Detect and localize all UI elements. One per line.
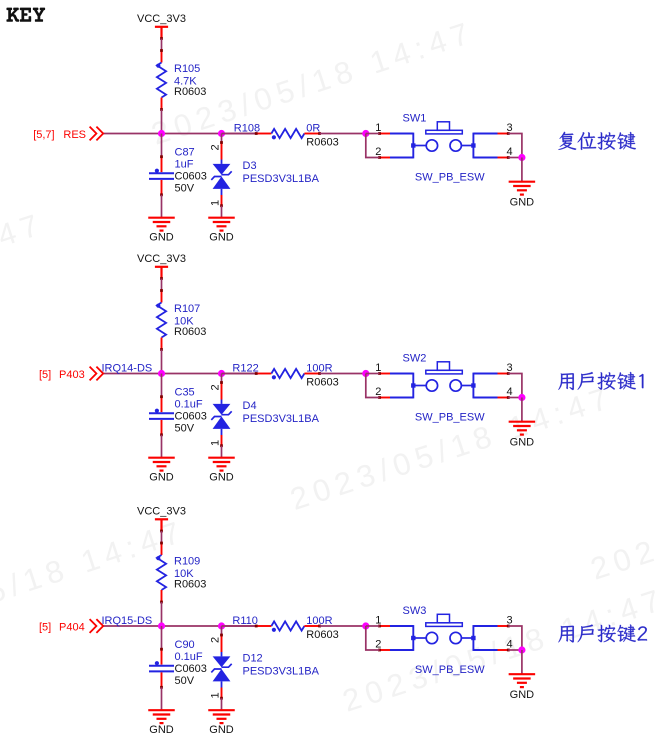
- wire: [221, 446, 223, 458]
- node junction: [218, 622, 225, 629]
- power VCC_3V3 (row 1): [137, 13, 186, 40]
- svg-text:GND: GND: [209, 472, 234, 484]
- svg-text:0.1uF: 0.1uF: [175, 399, 203, 411]
- wire: [161, 435, 163, 458]
- resistor R107 10K: [156, 289, 166, 351]
- svg-text:1: 1: [210, 440, 222, 446]
- wire: [508, 626, 522, 650]
- svg-text:SW2: SW2: [403, 353, 427, 365]
- svg-text:2: 2: [210, 637, 222, 643]
- svg-text:SW_PB_ESW: SW_PB_ESW: [415, 411, 485, 423]
- svg-text:VCC_3V3: VCC_3V3: [137, 13, 186, 25]
- svg-text:SW3: SW3: [403, 605, 427, 617]
- svg-text:C87: C87: [175, 147, 195, 159]
- wire net IRQ14-DS: [103, 373, 256, 375]
- wire: [221, 134, 223, 143]
- wire: [161, 626, 163, 649]
- port RES: [33, 127, 103, 141]
- wire: [508, 157, 522, 159]
- svg-text:C90: C90: [175, 639, 195, 651]
- svg-text:R110: R110: [232, 615, 257, 627]
- svg-text:GND: GND: [510, 196, 535, 208]
- resistor R122 100R: [255, 369, 321, 380]
- node junction: [218, 370, 225, 377]
- wire: [508, 134, 522, 158]
- wire: [161, 110, 163, 134]
- svg-text:[5]: [5]: [39, 621, 51, 633]
- label 用户按键2: [558, 625, 647, 643]
- svg-text:RES: RES: [63, 129, 86, 141]
- wire: [222, 373, 257, 375]
- svg-text:4: 4: [506, 146, 512, 158]
- svg-text:P404: P404: [59, 621, 85, 633]
- svg-text:VCC_3V3: VCC_3V3: [137, 253, 186, 265]
- wire: [521, 158, 523, 182]
- resistor R110 100R: [255, 621, 321, 632]
- wire: [161, 350, 163, 374]
- svg-text:100R: 100R: [306, 615, 332, 627]
- node junction: [158, 622, 165, 629]
- svg-text:R0603: R0603: [306, 136, 338, 148]
- wire: [320, 133, 366, 135]
- ground GND: [148, 218, 175, 231]
- svg-text:SW_PB_ESW: SW_PB_ESW: [415, 171, 485, 183]
- ground GND: [509, 422, 536, 435]
- wire: [508, 649, 522, 651]
- wire: [366, 373, 380, 375]
- svg-text:R0603: R0603: [306, 629, 338, 641]
- svg-text:GND: GND: [149, 724, 174, 736]
- label 复位按键: [558, 132, 636, 150]
- wire: [320, 625, 366, 627]
- svg-text:0R: 0R: [306, 122, 320, 134]
- svg-text:C0603: C0603: [175, 411, 207, 423]
- svg-text:GND: GND: [510, 436, 535, 448]
- svg-text:GND: GND: [209, 724, 234, 736]
- wire: [221, 206, 223, 218]
- wire: [161, 195, 163, 218]
- svg-text:R107: R107: [174, 303, 200, 315]
- wire: [521, 398, 523, 422]
- svg-text:1: 1: [210, 200, 222, 206]
- svg-text:100R: 100R: [306, 362, 332, 374]
- svg-text:3: 3: [506, 615, 512, 627]
- svg-text:50V: 50V: [175, 675, 195, 687]
- svg-text:4: 4: [506, 639, 512, 651]
- svg-text:R109: R109: [174, 556, 200, 568]
- node junction: [362, 370, 369, 377]
- port P404: [39, 619, 103, 633]
- svg-text:2: 2: [210, 144, 222, 150]
- wire: [508, 397, 522, 399]
- svg-text:[5,7]: [5,7]: [33, 129, 54, 141]
- ground GND: [148, 458, 175, 471]
- svg-text:PESD3V3L1BA: PESD3V3L1BA: [243, 665, 320, 677]
- wire: [222, 133, 257, 135]
- node junction: [518, 394, 525, 401]
- svg-text:SW1: SW1: [403, 113, 427, 125]
- ground GND: [208, 458, 235, 471]
- ground GND: [509, 674, 536, 687]
- wire: [222, 625, 257, 627]
- wire: [161, 602, 163, 626]
- svg-text:3: 3: [506, 122, 512, 134]
- svg-text:C0603: C0603: [175, 171, 207, 183]
- svg-text:2: 2: [210, 384, 222, 390]
- svg-text:GND: GND: [149, 472, 174, 484]
- svg-text:1: 1: [375, 122, 381, 134]
- svg-text:IRQ14-DS: IRQ14-DS: [102, 362, 153, 374]
- capacitor C35 0.1uF: [149, 395, 174, 436]
- wire: [221, 374, 223, 383]
- node junction: [218, 130, 225, 137]
- svg-text:R0603: R0603: [174, 326, 206, 338]
- svg-text:2: 2: [375, 639, 381, 651]
- svg-text:2: 2: [375, 386, 381, 398]
- ground GND: [148, 710, 175, 723]
- svg-text:GND: GND: [510, 689, 535, 701]
- node junction: [362, 622, 369, 629]
- port P403: [39, 367, 103, 381]
- ground GND: [208, 218, 235, 231]
- svg-text:GND: GND: [149, 232, 174, 244]
- resistor R105 4.7K: [156, 49, 166, 111]
- node junction: [158, 370, 165, 377]
- wire: [221, 626, 223, 635]
- wire: [161, 134, 163, 157]
- svg-text:R0603: R0603: [306, 376, 338, 388]
- power VCC_3V3 (row 2): [137, 253, 186, 280]
- resistor R108 0R: [255, 129, 321, 140]
- TVS diode D4 PESD3V3L1BA: [211, 381, 231, 447]
- node junction: [518, 646, 525, 653]
- svg-text:VCC_3V3: VCC_3V3: [137, 506, 186, 518]
- svg-text:R122: R122: [232, 362, 258, 374]
- ground GND: [509, 182, 536, 195]
- svg-text:R0603: R0603: [174, 86, 206, 98]
- wire: [366, 134, 380, 158]
- svg-text:R108: R108: [234, 122, 260, 134]
- wire: [161, 531, 163, 543]
- wire: [161, 374, 163, 397]
- node junction: [518, 154, 525, 161]
- svg-text:0.1uF: 0.1uF: [175, 651, 203, 663]
- svg-text:1: 1: [210, 692, 222, 698]
- node junction: [158, 130, 165, 137]
- wire: [508, 374, 522, 398]
- svg-text:3: 3: [506, 362, 512, 374]
- wire: [366, 626, 380, 650]
- svg-text:C0603: C0603: [175, 663, 207, 675]
- svg-text:R105: R105: [174, 63, 200, 75]
- title KEY: [6, 8, 45, 22]
- svg-text:50V: 50V: [175, 423, 195, 435]
- svg-text:C35: C35: [175, 387, 195, 399]
- wire: [161, 279, 163, 291]
- resistor R109 10K: [156, 542, 166, 604]
- wire: [320, 373, 366, 375]
- capacitor C87 1uF: [149, 155, 174, 196]
- switch SW3 SW_PB_ESW: [378, 614, 510, 651]
- svg-text:GND: GND: [209, 232, 234, 244]
- TVS diode D12 PESD3V3L1BA: [211, 634, 231, 700]
- wire net RES: [103, 133, 256, 135]
- svg-text:SW_PB_ESW: SW_PB_ESW: [415, 664, 485, 676]
- wire: [221, 698, 223, 710]
- wire: [366, 133, 380, 135]
- svg-text:D3: D3: [243, 160, 257, 172]
- svg-text:1: 1: [375, 615, 381, 627]
- svg-text:PESD3V3L1BA: PESD3V3L1BA: [243, 413, 320, 425]
- wire: [521, 650, 523, 674]
- wire: [161, 687, 163, 710]
- svg-text:1uF: 1uF: [175, 159, 194, 171]
- capacitor C90 0.1uF: [149, 648, 174, 689]
- svg-text:PESD3V3L1BA: PESD3V3L1BA: [243, 173, 320, 185]
- wire net IRQ15-DS: [103, 625, 256, 627]
- power VCC_3V3 (row 3): [137, 506, 186, 533]
- switch SW2 SW_PB_ESW: [378, 362, 510, 399]
- wire: [366, 374, 380, 398]
- label 用户按键1: [558, 372, 643, 390]
- ground GND: [208, 710, 235, 723]
- svg-text:R0603: R0603: [174, 578, 206, 590]
- node junction: [362, 130, 369, 137]
- wire: [366, 625, 380, 627]
- svg-text:D12: D12: [243, 653, 263, 665]
- wire: [161, 39, 163, 51]
- svg-text:[5]: [5]: [39, 369, 51, 381]
- svg-text:50V: 50V: [175, 183, 195, 195]
- svg-text:P403: P403: [59, 369, 85, 381]
- svg-text:4: 4: [506, 386, 512, 398]
- svg-text:2: 2: [375, 146, 381, 158]
- switch SW1 SW_PB_ESW: [378, 122, 510, 159]
- TVS diode D3 PESD3V3L1BA: [211, 141, 231, 207]
- svg-text:D4: D4: [243, 400, 257, 412]
- svg-text:IRQ15-DS: IRQ15-DS: [102, 615, 153, 627]
- svg-text:1: 1: [375, 362, 381, 374]
